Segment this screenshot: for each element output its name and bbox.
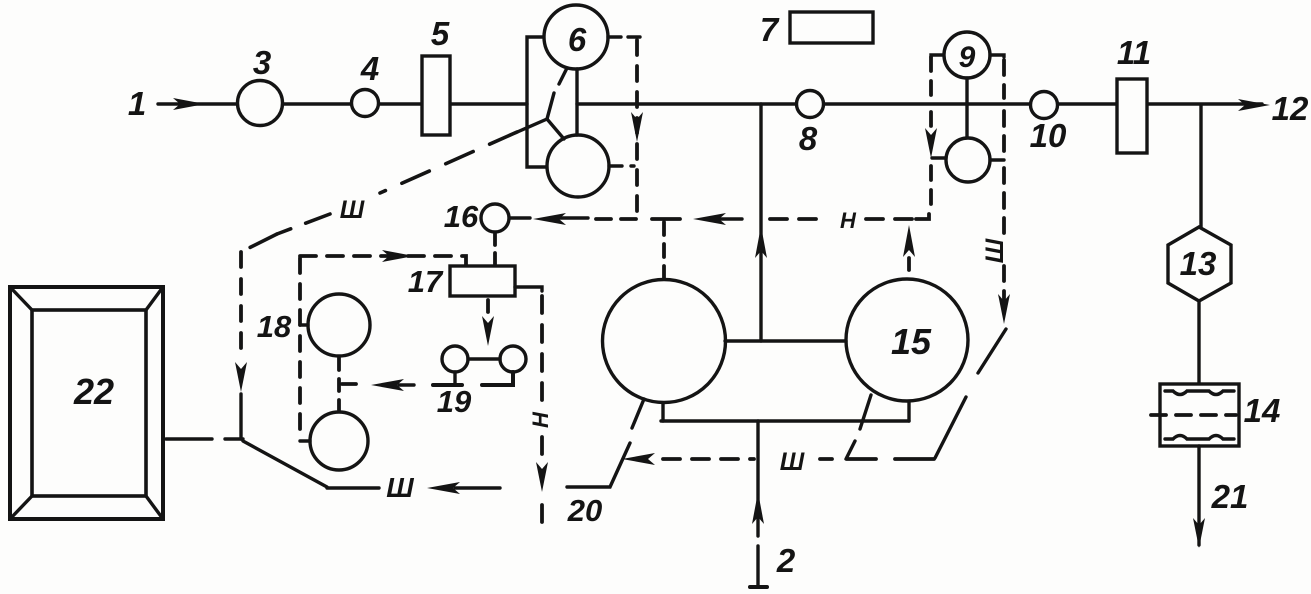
svg-text:6: 6 [568, 21, 587, 58]
wire 14 down [1197, 446, 1200, 545]
svg-text:2: 2 [776, 542, 796, 579]
svg-text:3: 3 [253, 44, 271, 81]
component 4 circle [352, 90, 379, 117]
arrow 15 right stub up [903, 225, 915, 257]
svg-text:1: 1 [128, 85, 146, 122]
wire 9 arrow stub to lower circle [932, 156, 946, 159]
component 19 left circle [442, 346, 468, 372]
wire sh bottom-left arrow tail [455, 486, 500, 489]
component 22 outer frame [10, 287, 163, 519]
node 1 inlet arrow [173, 98, 205, 110]
wire 9 top-right stub [990, 55, 1004, 57]
wire center vertical from main line to 15 [759, 104, 762, 341]
wire 6 right top stub [608, 35, 640, 38]
arrow 2 up [752, 492, 764, 524]
wire H line dashes right of center [770, 217, 912, 221]
node 2 bottom tick [750, 585, 767, 589]
wire 2 bottom vertical [756, 421, 759, 586]
wire 15 right top dashed stub [907, 258, 911, 278]
wire sh corner to vertical [241, 234, 277, 252]
wire 15 left bottom stub [661, 404, 664, 421]
wire 6 center vertical [575, 69, 578, 135]
wire 17 box top dashed with corner [300, 256, 466, 265]
wire main line left segment [158, 102, 527, 105]
component 10 circle [1031, 92, 1058, 119]
wire 15 right bottom stub [907, 402, 910, 421]
wire 15 right diagonal [860, 395, 871, 429]
component 22 corner joins [10, 287, 163, 519]
component 22 inner frame [32, 310, 146, 496]
svg-text:17: 17 [408, 264, 444, 299]
svg-text:19: 19 [437, 384, 472, 419]
component 6 lower circle [547, 135, 609, 197]
svg-text:13: 13 [1180, 245, 1217, 282]
arrow sh left vertical down [235, 362, 247, 392]
wire sh diagonal dashed upper [380, 132, 517, 193]
arrow sh vertical down [998, 294, 1010, 324]
component 3 circle [238, 81, 283, 126]
svg-text:Ш: Ш [981, 238, 1009, 263]
wire 6 right dashed vertical [635, 40, 639, 216]
wire 19 connector [468, 357, 500, 360]
component 6 upper circle [544, 5, 608, 69]
component 14 rectangle [1160, 384, 1239, 446]
wire H line dashes 16 to 6 vertical [596, 217, 637, 221]
wire 9 vertical between circles [965, 78, 968, 139]
wire H line: stub from 16 [509, 216, 530, 219]
svg-text:Ш: Ш [340, 196, 365, 224]
wire sh bottom-center dashes [663, 457, 754, 461]
wire sh left vertical dashed [239, 252, 243, 360]
wire sh bottom-center right dashes [820, 457, 934, 461]
node 12 outlet arrow [1238, 99, 1270, 111]
svg-text:5: 5 [431, 15, 450, 52]
wire 19 left stand [433, 372, 462, 385]
wire diagonal lower part [935, 397, 966, 458]
svg-text:10: 10 [1030, 117, 1067, 154]
component 14 bottom wavy line [1165, 436, 1234, 440]
wire 16 to 17 dashed [493, 234, 497, 264]
wire 17 box left dashed vertical [298, 258, 302, 437]
component 14 middle dashed line [1151, 413, 1236, 417]
wire junction diagonal down to sh bottom line [243, 441, 327, 487]
arrow sh bottom-left [427, 482, 460, 494]
wire sh bottom-left line solid [327, 486, 379, 489]
wire sh left vertical solid part [239, 394, 242, 439]
svg-text:11: 11 [1117, 34, 1151, 71]
component 15 left circle [603, 280, 726, 403]
wire 9 right dashed vertical (sh line) [1002, 60, 1006, 302]
component 18 upper circle [308, 294, 370, 356]
component 17 rectangle [450, 266, 515, 296]
wire 15 left top dashed stub [662, 222, 666, 279]
arrow sh bottom-center left [622, 453, 655, 465]
wire diagonal from sh vertical to bottom (upper part) [978, 329, 1006, 373]
wire 9 top-left stub [931, 55, 945, 57]
arrow up on center vertical [755, 226, 767, 258]
wire 15 bottom line [661, 419, 909, 422]
component 18 lower circle [310, 412, 368, 470]
svg-text:Н: Н [528, 411, 553, 428]
component 9 lower circle [946, 138, 990, 182]
arrow 19 to 18 [371, 379, 414, 391]
wire 15 connector [725, 339, 846, 342]
svg-text:Ш: Ш [780, 448, 805, 476]
svg-text:Ш: Ш [386, 472, 414, 503]
component 6 left bracket [527, 37, 547, 167]
arrow H vertical down [536, 462, 548, 492]
component 6 linkage [515, 68, 567, 139]
wire H line dash above stub [652, 217, 680, 221]
svg-text:Н: Н [840, 208, 857, 233]
component 15 right circle [846, 279, 968, 401]
component 19 right circle [500, 346, 526, 372]
wire 9 lower-right stub [990, 158, 1004, 161]
svg-text:12: 12 [1272, 90, 1309, 127]
wire sh diagonal dashed lower [277, 214, 330, 234]
svg-text:22: 22 [73, 371, 114, 412]
component 14 top wavy line [1165, 391, 1234, 395]
svg-text:8: 8 [799, 120, 818, 157]
component 11 rectangle [1117, 79, 1147, 153]
wire 18 upper left stub [300, 323, 308, 326]
svg-text:14: 14 [1244, 392, 1281, 429]
wire dash into 18 middle [342, 382, 356, 386]
wire coupling tick [846, 441, 855, 459]
arrow 17 box right [382, 250, 414, 262]
svg-text:4: 4 [360, 50, 379, 87]
component 8 circle [797, 91, 824, 118]
svg-text:16: 16 [444, 199, 479, 234]
wire main line right segment [577, 102, 1262, 105]
wire 13 to 14 [1197, 301, 1200, 384]
arrow H line mid left [693, 213, 742, 225]
component 20 line [567, 443, 630, 487]
wire H line corner up to 9 [916, 214, 929, 219]
component 5 rectangle [422, 56, 450, 135]
wire 6 right bottom stub [609, 164, 634, 167]
arrow 17 down to 19 [482, 316, 494, 346]
component 13 hexagon [1168, 227, 1231, 301]
svg-text:18: 18 [257, 309, 292, 344]
svg-text:20: 20 [567, 493, 602, 528]
wire H vertical dashed [540, 296, 544, 532]
wire 15 left diagonal [632, 399, 644, 428]
wire 17 bottom dashed [486, 300, 490, 316]
svg-text:9: 9 [959, 41, 976, 74]
component 9 circle [944, 32, 990, 78]
wire branch down to 13 [1199, 105, 1202, 227]
svg-text:7: 7 [760, 11, 780, 48]
component 16 circle [481, 204, 509, 232]
component 7 rectangle [790, 12, 873, 43]
arrow 9 down [925, 128, 937, 158]
wire 17 right stub to H vertical [515, 287, 542, 291]
arrow into 16 [533, 213, 588, 225]
arrow 6 vertical down [631, 112, 643, 142]
wire 18 lower left stub [300, 439, 310, 442]
component 9 left dashed vertical [929, 57, 933, 211]
wire 19 right stand [482, 372, 513, 385]
svg-text:15: 15 [891, 321, 932, 362]
wire 18 middle dashed vertical [337, 358, 341, 410]
svg-text:21: 21 [1211, 478, 1249, 515]
arrow 21 down [1193, 518, 1205, 548]
wire 22 to junction [166, 437, 243, 440]
